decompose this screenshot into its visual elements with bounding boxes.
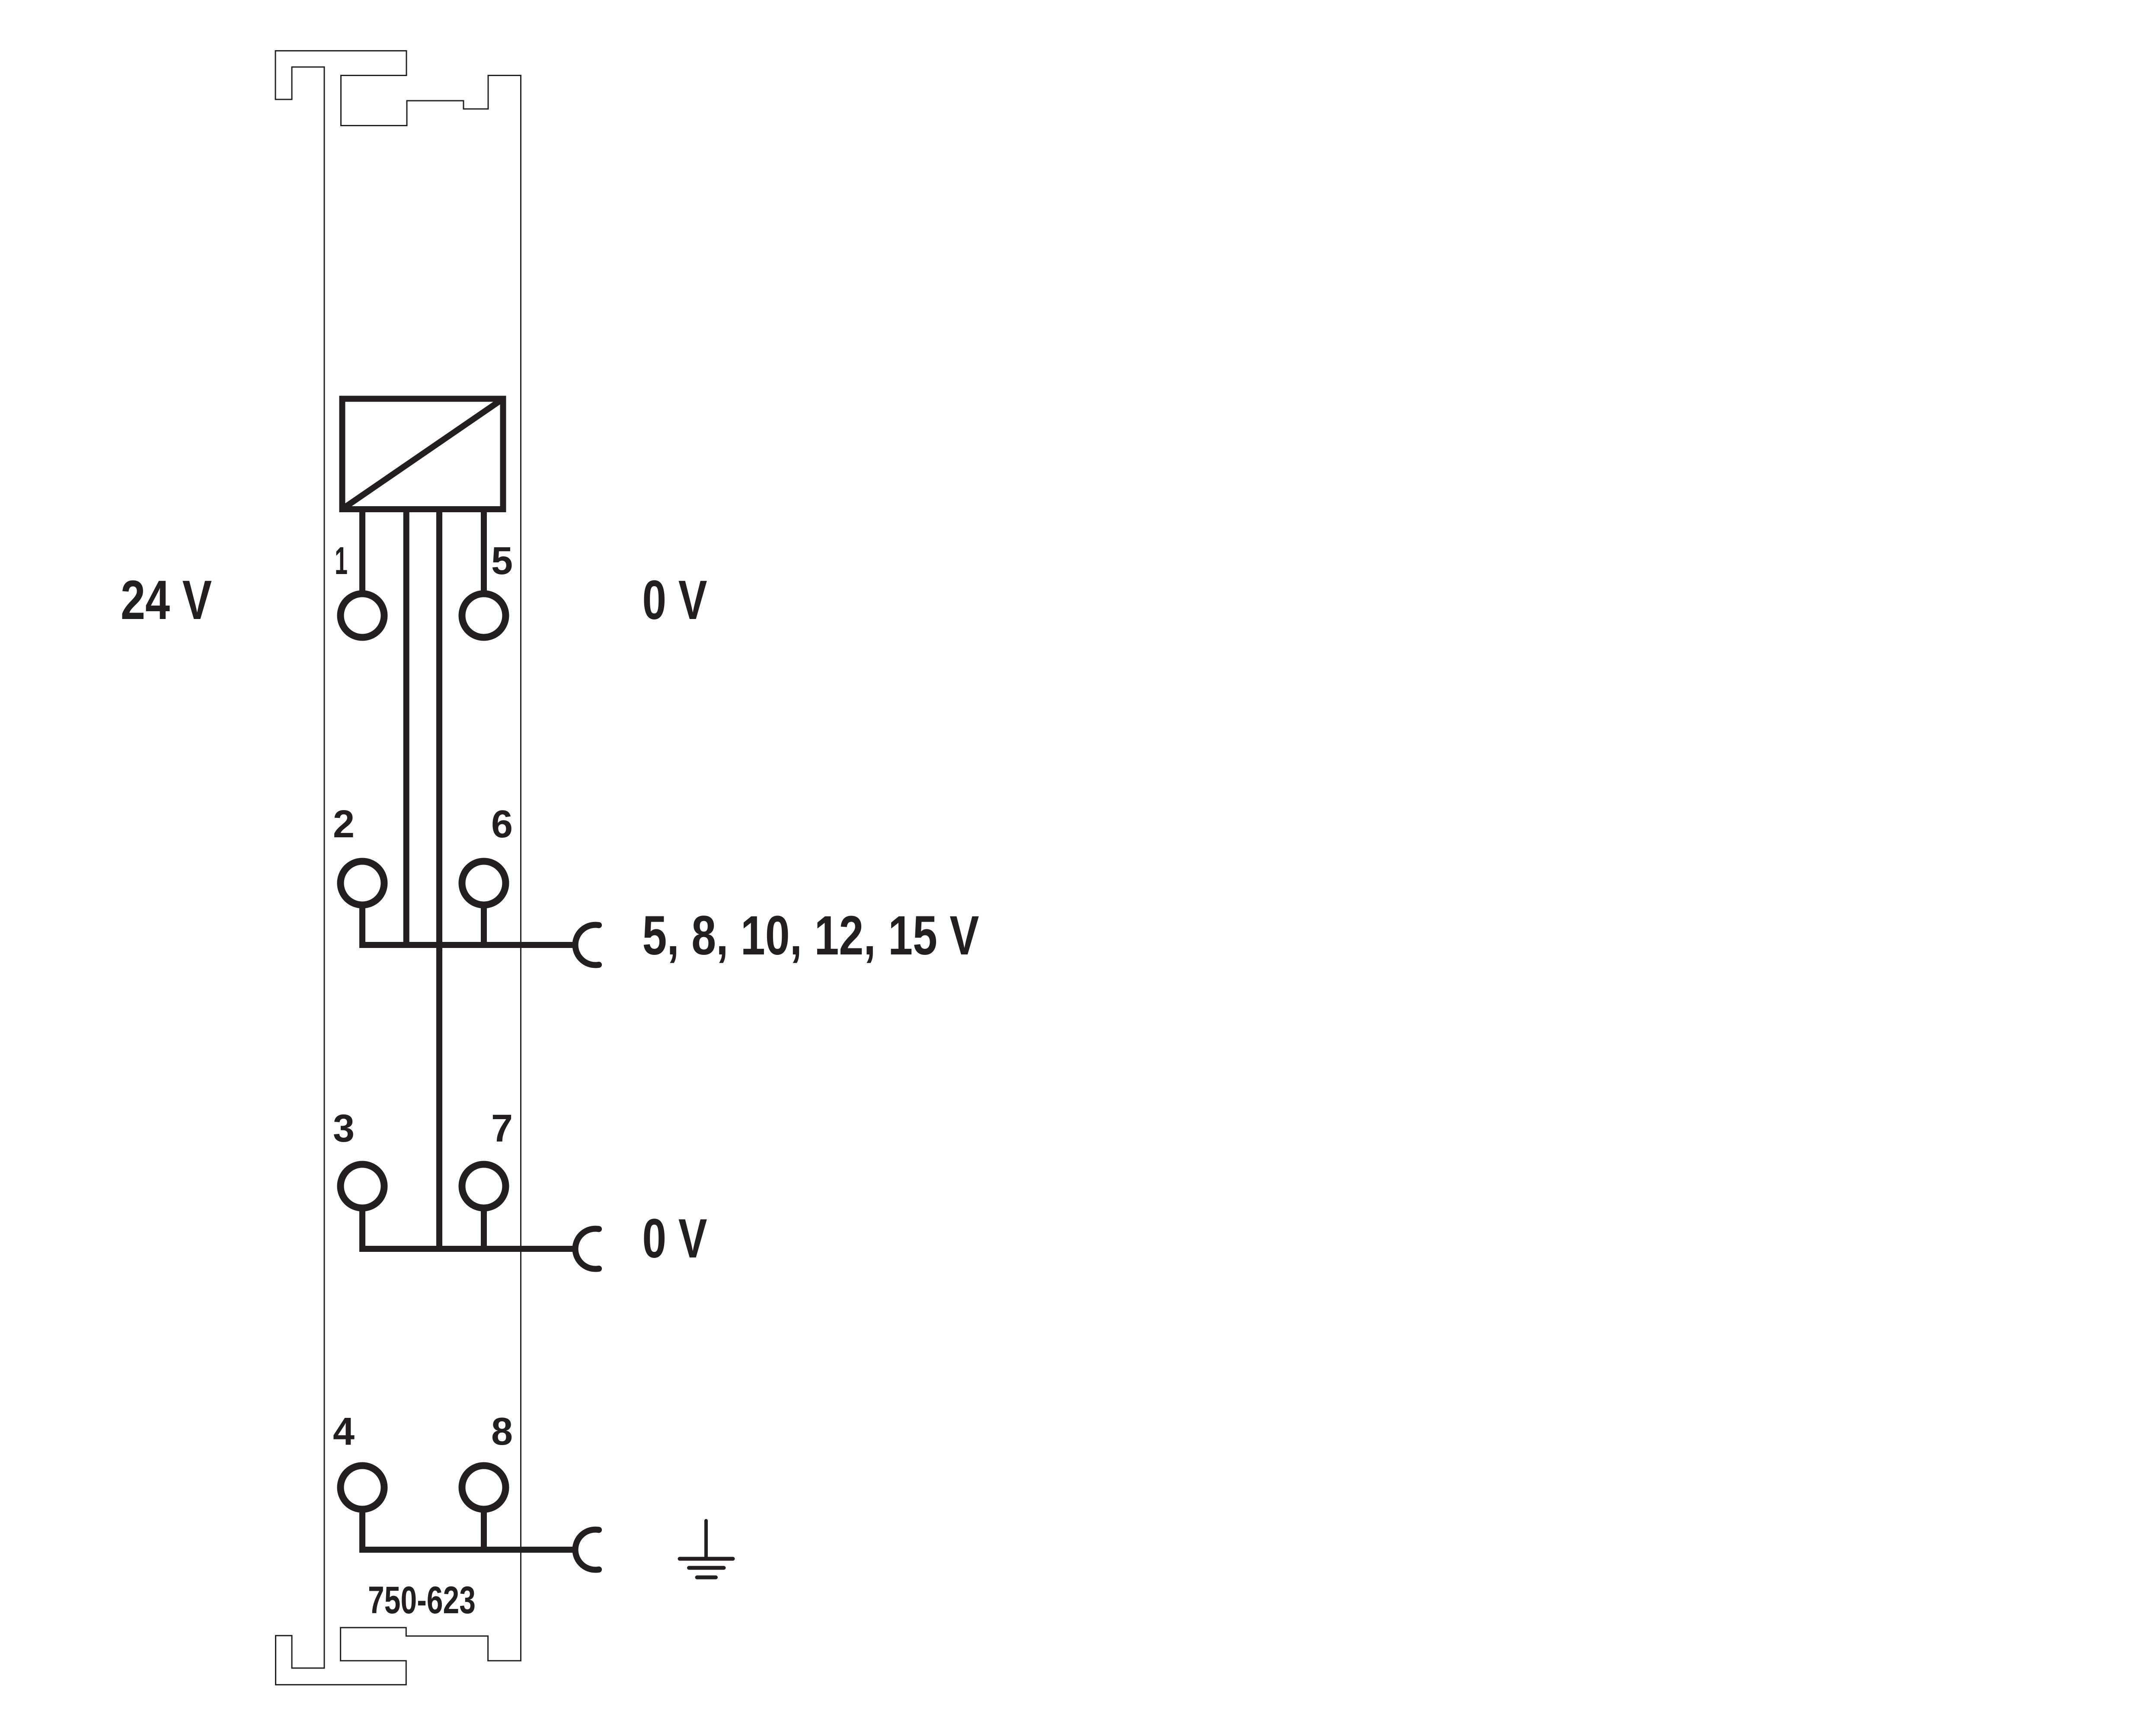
terminal 4 circle [341,1466,384,1509]
wire from U1 to terminal 1 [359,510,365,594]
svg-text:5, 8, 10, 12, 15 V: 5, 8, 10, 12, 15 V [643,905,979,967]
wire from U1 to bus of terminals 3/7 [436,510,442,1249]
wire stub terminal 8 [481,1509,487,1550]
wire stub terminal 6 [481,904,487,945]
wire from U1 to bus of terminals 2/6 [403,510,409,945]
svg-text:2: 2 [333,803,355,846]
ground symbol [680,1521,733,1577]
terminal 7 circle [462,1165,506,1208]
svg-text:24 V: 24 V [121,569,212,631]
wire stub terminal 7 [481,1207,487,1249]
wire bus terminals 3/7 to output [362,1207,572,1249]
svg-text:3: 3 [333,1107,355,1150]
svg-text:0 V: 0 V [643,1208,707,1270]
terminal 6 circle [462,862,506,905]
svg-text:6: 6 [491,803,513,846]
clamp contact arc at 0V output [575,1229,599,1269]
svg-text:4: 4 [333,1410,355,1453]
terminal 5 circle [462,594,506,638]
terminal 8 circle [462,1466,506,1509]
svg-text:1: 1 [335,539,348,583]
wire from U1 to terminal 5 [481,510,487,594]
clamp contact arc at 5,8,10,12,15V output [575,925,599,965]
power supply U1 (box with diagonal) [342,399,503,509]
svg-text:750-623: 750-623 [368,1578,476,1621]
wire bus terminals 2/6 to output [362,904,572,945]
clamp contact arc at ground output [575,1530,599,1570]
module outline (WAGO 750-623 terminal block body) [275,51,521,1685]
wire bus terminals 4/8 to output [362,1509,572,1550]
terminal 3 circle [341,1165,384,1208]
svg-text:0 V: 0 V [643,569,707,631]
terminal 2 circle [341,862,384,905]
svg-text:5: 5 [491,539,513,583]
svg-text:7: 7 [491,1107,513,1150]
svg-text:8: 8 [491,1410,513,1453]
terminal 1 circle [341,594,384,638]
